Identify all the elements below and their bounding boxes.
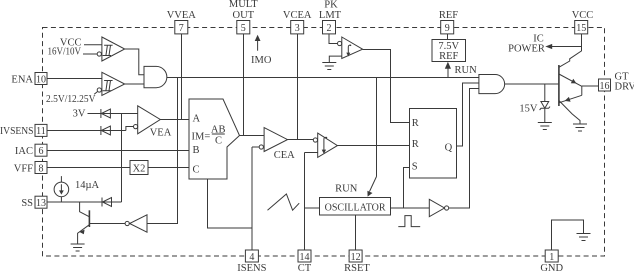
comparator U1 VCC UVLO <box>102 37 125 61</box>
svg-text:IAC: IAC <box>15 146 33 157</box>
pin 13 SS <box>21 196 47 209</box>
diode D1 3V clamp <box>101 109 111 118</box>
comparator U4 PK LMT <box>342 37 363 59</box>
pin 7 VVEA <box>167 10 197 34</box>
svg-text:6: 6 <box>39 146 44 157</box>
wire VFF to X2 block <box>47 167 130 169</box>
Q2 emitter with arrow <box>559 74 582 86</box>
pin 2 PK LMT <box>319 0 342 34</box>
svg-text:R: R <box>412 118 419 129</box>
arrow RUN into oscillator <box>370 177 377 192</box>
svg-text:VEA: VEA <box>150 128 172 139</box>
pin 5 MULT OUT <box>229 0 258 34</box>
wire VCC to U1 plus input <box>84 44 102 46</box>
svg-text:PK: PK <box>324 0 338 11</box>
wire 2.5V label to U2 bubble <box>94 92 97 95</box>
svg-text:RUN: RUN <box>455 65 478 76</box>
op-amp CEA <box>264 128 287 152</box>
wire RUN rail down to oscillator <box>376 78 378 177</box>
svg-text:X2: X2 <box>133 163 146 174</box>
VEA inverting input bubble <box>134 125 138 129</box>
svg-text:1: 1 <box>549 252 554 263</box>
svg-text:B: B <box>193 145 200 156</box>
AND gate A1 <box>144 66 167 87</box>
svg-text:VVEA: VVEA <box>167 10 197 21</box>
svg-text:ISENS: ISENS <box>237 263 266 272</box>
U2 hysteresis icon <box>103 81 113 91</box>
pin 4 ISENS <box>237 250 266 272</box>
wire X2 to multiplier C input <box>148 167 189 169</box>
multiplier block IM=AB/C <box>189 99 240 179</box>
svg-text:2.5V/12.25V: 2.5V/12.25V <box>46 94 96 105</box>
Q3 emitter with arrow (PNP) <box>559 95 582 103</box>
svg-text:5: 5 <box>241 23 246 34</box>
wire pin 1 GND to internal ground <box>552 220 584 250</box>
svg-text:12: 12 <box>351 252 361 263</box>
svg-text:C: C <box>215 136 222 147</box>
multiplier fraction bar <box>212 133 225 135</box>
svg-text:A: A <box>193 114 201 125</box>
svg-text:16V/10V: 16V/10V <box>48 47 82 58</box>
svg-text:DRV: DRV <box>615 82 634 93</box>
pin 14 CT <box>298 250 312 272</box>
svg-text:2: 2 <box>327 23 332 34</box>
wire ISENS pin 4 vertical <box>251 147 253 250</box>
wire CT ramp to U3 plus input <box>305 152 318 154</box>
current source 14uA <box>54 182 69 197</box>
wire pin 7 VVEA to node A <box>181 34 183 120</box>
svg-text:IMO: IMO <box>251 55 272 66</box>
svg-text:CEA: CEA <box>274 150 295 161</box>
svg-text:10: 10 <box>36 74 46 85</box>
pin 3 VCEA <box>283 10 312 34</box>
svg-text:3: 3 <box>295 23 300 34</box>
wire oscillator output to S input <box>404 168 410 209</box>
wire 16V/10V to U1 bubble <box>83 53 97 55</box>
svg-text:VCEA: VCEA <box>283 10 312 21</box>
comparator U2 ENA <box>102 72 125 95</box>
svg-text:RUN: RUN <box>335 184 358 195</box>
wire pin 9 REF to block <box>447 34 449 40</box>
U4 inverting input bubble <box>338 41 342 45</box>
svg-text:9: 9 <box>445 23 450 34</box>
svg-text:S: S <box>412 161 418 172</box>
svg-text:REF: REF <box>439 51 458 62</box>
Q3 collector to ground <box>559 101 580 125</box>
svg-text:GND: GND <box>540 263 563 272</box>
wire multiplier output IMO <box>240 135 265 137</box>
diode D2 IVSENS <box>101 126 111 135</box>
svg-text:LMT: LMT <box>319 10 342 21</box>
wire U3 output to flip-flop R <box>337 145 409 147</box>
wire 3V through D1 to VEA plus input <box>88 113 138 115</box>
wire IAC to multiplier B input <box>47 150 189 152</box>
svg-text:14µA: 14µA <box>75 180 100 191</box>
svg-text:ENA: ENA <box>11 74 33 85</box>
svg-text:VFF: VFF <box>14 163 33 174</box>
block OSCILLATOR <box>320 198 391 216</box>
wire ISENS to CEA inverting input <box>252 146 259 148</box>
svg-text:14: 14 <box>300 252 310 263</box>
wire U2 output to AND gate <box>125 83 144 85</box>
arrow RUN into REF block <box>445 62 451 69</box>
zener diode 15V <box>544 84 546 102</box>
svg-text:OSCILLATOR: OSCILLATOR <box>325 202 386 213</box>
squarer block X2 <box>130 161 148 175</box>
ground at GND net <box>577 234 591 241</box>
svg-text:15: 15 <box>576 23 586 34</box>
svg-text:IVSENS: IVSENS <box>0 126 34 137</box>
wire multiplier bottom to ISENS node <box>208 179 253 228</box>
wire SS input <box>47 201 122 203</box>
wire pin 5 MULT OUT down <box>243 34 245 136</box>
wire CT to oscillator <box>305 207 320 209</box>
U4 hysteresis icon <box>348 45 350 53</box>
wire U4 output to flip-flop R top <box>363 50 410 123</box>
wire inverter output to Q1 base <box>90 223 125 225</box>
wire ENA input <box>47 78 102 80</box>
wire net RUN main rail <box>167 77 479 79</box>
svg-text:POWER: POWER <box>508 44 545 55</box>
pin 11 IVSENS <box>0 124 47 137</box>
svg-text:RSET: RSET <box>344 263 370 272</box>
transistor Q1 soft-start discharge <box>80 202 90 217</box>
svg-text:8: 8 <box>39 163 44 174</box>
svg-text:7: 7 <box>179 23 184 34</box>
svg-text:CT: CT <box>298 263 312 272</box>
block 7.5V REF <box>432 40 466 62</box>
wire CEA output <box>288 139 314 141</box>
comparator U3 PWM <box>318 133 338 157</box>
wire RSET pin to oscillator <box>355 215 357 250</box>
svg-text:SS: SS <box>21 198 33 209</box>
clock pulse symbol <box>398 216 420 227</box>
svg-text:4: 4 <box>249 252 254 263</box>
flip-flop FF1 <box>410 109 457 179</box>
wire pin 2 PK LMT to comparator <box>329 34 337 44</box>
svg-text:VCC: VCC <box>572 10 594 21</box>
op-amp VEA <box>138 106 161 134</box>
wire U1 output to AND gate <box>125 49 144 75</box>
svg-text:OUT: OUT <box>233 10 255 21</box>
arrow IMO <box>257 40 259 51</box>
svg-text:16: 16 <box>600 81 610 92</box>
ground at U4 input <box>322 63 336 70</box>
wire RUN rail down to inverter input <box>147 78 178 224</box>
wire output to pin 16 <box>582 85 599 87</box>
pin 10 ENA <box>11 73 47 86</box>
wire A2 output to driver base <box>505 83 559 85</box>
pin 12 RSET <box>344 250 370 272</box>
sawtooth waveform symbol <box>268 194 300 210</box>
svg-text:Q: Q <box>445 143 453 154</box>
wire pin 3 VCEA down to CEA output <box>297 34 299 140</box>
svg-text:C: C <box>193 164 200 175</box>
ground at Q3 collector <box>573 124 587 131</box>
CEA inverting input bubble <box>259 145 263 149</box>
wire CT pin vertical <box>304 153 306 251</box>
pin 16 GT DRV <box>599 71 634 92</box>
pin 9 REF <box>439 10 458 34</box>
svg-text:15V: 15V <box>519 103 538 114</box>
wire RUN rail up to 7.5V REF <box>447 68 449 78</box>
svg-text:11: 11 <box>36 126 46 137</box>
svg-text:13: 13 <box>36 198 46 209</box>
pin 6 IAC <box>15 144 47 157</box>
diode D3 soft start <box>102 198 112 207</box>
svg-text:3V: 3V <box>73 109 86 120</box>
wire pin 15 VCC down <box>559 34 582 67</box>
U1 inverting input bubble <box>97 52 101 56</box>
transistor Q2 Q3 totem pole bar <box>558 65 560 106</box>
pin 1 GND <box>540 250 563 272</box>
U2 inverting input bubble <box>97 88 101 92</box>
inverter I1 (drives Q1) <box>130 215 147 232</box>
U1 hysteresis icon <box>103 45 113 55</box>
svg-text:REF: REF <box>439 10 458 21</box>
U3 hysteresis icon <box>324 137 326 151</box>
svg-text:MULT: MULT <box>229 0 258 10</box>
wire I2 output to AND gate A2 <box>449 89 479 209</box>
pin 8 VFF <box>14 162 47 175</box>
ground at zener <box>538 123 552 130</box>
arrow IC POWER <box>551 46 582 48</box>
AND gate A2 gate drive <box>479 75 505 94</box>
wire oscillator output to inverter I2 <box>391 207 430 209</box>
svg-text:IM=: IM= <box>192 131 211 142</box>
wire clamp node vertical <box>121 114 123 203</box>
svg-text:R: R <box>412 139 419 150</box>
pin 15 VCC <box>572 10 594 34</box>
wire FF1 Q output to AND gate A2 <box>457 83 479 146</box>
wire IVSENS input <box>47 127 134 131</box>
output node vertical <box>581 86 583 95</box>
IC boundary dashed border <box>43 28 605 257</box>
ground at Q1 emitter <box>71 244 85 251</box>
wire VEA output node A <box>160 119 189 121</box>
wire U4 plus input to ground <box>329 56 342 62</box>
U3 inverting input bubble <box>313 138 317 142</box>
inverter I2 <box>429 199 444 216</box>
